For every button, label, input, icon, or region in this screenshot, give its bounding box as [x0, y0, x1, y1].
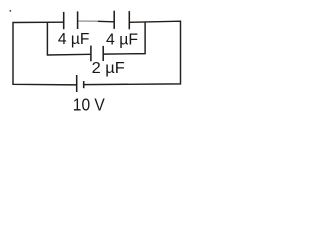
wire gray segment between C1 and C2	[78, 20, 98, 22]
wire outer loop left: top-left corner, left edge, bottom to battery	[13, 22, 76, 85]
wire black segment between C1 and C2	[98, 20, 114, 23]
svg-text:2 µF: 2 µF	[92, 60, 125, 77]
battery V1 short plate	[83, 81, 85, 88]
battery V1 long plate	[76, 75, 78, 92]
wire middle branch left: T down from top wire, across to C3	[47, 22, 90, 55]
capacitor C3 2uF right plate	[102, 46, 104, 61]
svg-text:4 µF: 4 µF	[58, 31, 90, 48]
capacitor C1 4uF left plate	[63, 12, 65, 29]
capacitor C2 4uF left plate	[113, 11, 115, 29]
svg-text:4 µF: 4 µF	[106, 32, 138, 49]
svg-text:10 V: 10 V	[73, 95, 105, 115]
wire outer loop right: battery to bottom-right corner, right edge, top to C2	[84, 21, 180, 84]
capacitor C2 4uF right plate	[128, 11, 130, 29]
capacitor C1 4uF right plate	[77, 11, 79, 29]
capacitor C3 2uF left plate	[90, 46, 92, 62]
wire middle branch right: C3 to riser up to top wire	[104, 22, 146, 54]
stray dot	[9, 10, 11, 12]
